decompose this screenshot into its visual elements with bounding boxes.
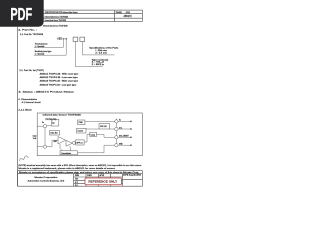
demodulator block B8 bbox=[60, 151, 78, 155]
band pass block B6 bbox=[76, 140, 84, 145]
svg-text:AB0103 TSOP4-40 : Wide case ty: AB0103 TSOP4-40 : Wide case type bbox=[40, 80, 79, 83]
right label group 2 bbox=[92, 58, 109, 66]
wire B3 to pin bus bbox=[85, 120, 115, 122]
svg-text:AB0102 TSOP4-38 : Low case typ: AB0102 TSOP4-38 : Low case type bbox=[40, 76, 79, 79]
svg-text:T.M.: T.M. bbox=[75, 179, 79, 181]
leader from square2 to right label 1 bbox=[82, 42, 114, 55]
svg-text:2 : BK2 p: 2 : BK2 p bbox=[92, 64, 104, 66]
svg-text:(NOTE) terminal assembly has s: (NOTE) terminal assembly has same with a… bbox=[18, 164, 141, 167]
svg-text:2-1. Part No. list (TSOP): 2-1. Part No. list (TSOP) bbox=[19, 69, 44, 72]
svg-text:Murata Corporation: Murata Corporation bbox=[34, 176, 58, 179]
svg-text:1 : Specials: 1 : Specials bbox=[35, 53, 45, 55]
svg-text:Infrared data Sensor TSOP4838: Infrared data Sensor TSOP4838 bbox=[45, 15, 69, 18]
left label group 2 bbox=[35, 50, 52, 55]
wire B5 to pin bus bbox=[110, 128, 115, 130]
svg-text:AB0104 TSOP4-40 : Low gain typ: AB0104 TSOP4-40 : Low gain type bbox=[40, 83, 78, 86]
svg-text:OSC 1/4: OSC 1/4 bbox=[100, 126, 107, 128]
svg-text:3. Status : AB0174 Produ: 3. Status : AB0174 Product Status bbox=[18, 91, 75, 94]
pin circle C bbox=[115, 136, 118, 139]
wire node 2 to input block bbox=[47, 125, 52, 127]
schematic frame bbox=[37, 113, 142, 156]
pin D wire and terminal bbox=[118, 144, 131, 146]
wire T1 to demodulator bbox=[60, 144, 63, 151]
svg-text:Automotive Controls Business U: Automotive Controls Business Unit bbox=[28, 179, 65, 182]
svg-text:Induc Ext: Induc Ext bbox=[50, 132, 58, 135]
footer table frame bbox=[18, 171, 143, 187]
svg-text:Infrared data Sensor TSOP4838: Infrared data Sensor TSOP4838 bbox=[43, 114, 82, 117]
svg-text:S.K.: S.K. bbox=[75, 185, 79, 187]
svg-text:Inp: Inp bbox=[52, 122, 54, 124]
control block B4 bbox=[77, 128, 86, 133]
PDF badge bbox=[0, 0, 44, 27]
svg-text:PAGE: PAGE bbox=[116, 11, 122, 14]
wire node1 to amp bbox=[37, 146, 43, 148]
comparator block B7 bbox=[90, 132, 97, 136]
svg-text:Vs: Vs bbox=[119, 120, 121, 122]
PGM block B3 bbox=[78, 120, 85, 125]
leader from digit 2 to left label 2 bbox=[34, 40, 66, 55]
wire node2 bus down bbox=[44, 128, 46, 145]
svg-text:2-1. Part No. TSOP4838: 2-1. Part No. TSOP4838 bbox=[20, 33, 44, 36]
svg-text:AB0101 TSOP4-38 : Wide case ty: AB0101 TSOP4-38 : Wide case type bbox=[40, 72, 80, 75]
svg-text:Murata on acceptance of specif: Murata on acceptance of specification pl… bbox=[19, 171, 140, 174]
amplifier triangle T2 bbox=[66, 140, 72, 146]
svg-text:Specifications of the Parts: Specifications of the Parts bbox=[89, 46, 118, 49]
wire B4 to B5 bbox=[86, 128, 99, 130]
svg-text:REFERENCE ONLY: REFERENCE ONLY bbox=[88, 180, 117, 184]
pin circle A bbox=[115, 120, 118, 123]
svg-text:SPECIFICATIONS FOR Infrared da: SPECIFICATIONS FOR Infrared data Sensor bbox=[45, 11, 78, 14]
svg-text:2. Part No. :: 2. Part No. : bbox=[18, 29, 37, 32]
node circle pin 2 bbox=[43, 125, 46, 128]
svg-text:2 : 5.5 mm: 2 : 5.5 mm bbox=[95, 52, 107, 54]
svg-text:DATE Aug.30,2002: DATE Aug.30,2002 bbox=[123, 174, 141, 177]
page background bbox=[0, 0, 149, 198]
pin B wire and terminal bbox=[118, 128, 131, 130]
svg-text:AB0172: AB0172 bbox=[124, 15, 133, 18]
header table frame bbox=[40, 10, 142, 21]
svg-text:Vs: Vs bbox=[42, 122, 44, 124]
svg-text:4-1 Internal circuit: 4-1 Internal circuit bbox=[22, 101, 42, 104]
oscillator block B5 bbox=[99, 124, 110, 130]
svg-text:Infrared data Sensor TSOP4838: Infrared data Sensor TSOP4838 bbox=[43, 24, 68, 27]
svg-text:4-1-1 Block: 4-1-1 Block bbox=[18, 109, 32, 111]
svg-text:Murata is a registered tradema: Murata is a registered trademark, please… bbox=[18, 167, 115, 170]
wire B6 up to B7 bbox=[84, 134, 90, 142]
wire node1 right to amplifier bbox=[47, 146, 52, 148]
svg-text:BPF cct: BPF cct bbox=[77, 141, 83, 144]
svg-text:Comp: Comp bbox=[91, 135, 96, 137]
wire T2 to demodulator bbox=[69, 146, 72, 151]
svg-text:APVD: APVD bbox=[100, 174, 105, 177]
pin A wire and terminal bbox=[118, 120, 131, 122]
svg-text:ABS: ABS bbox=[57, 37, 62, 40]
svg-text:PGM: PGM bbox=[79, 122, 83, 124]
svg-text:PDF: PDF bbox=[10, 4, 32, 24]
pin bus vertical bbox=[115, 119, 117, 147]
leader from square1 to right label 2 bbox=[75, 42, 102, 67]
reference only stamp bbox=[85, 178, 121, 185]
svg-text:4. Characteristics: 4. Characteristics bbox=[18, 98, 38, 101]
wire demodulator to pin D bbox=[78, 145, 115, 153]
wire from frame to node 2 bbox=[37, 125, 43, 127]
svg-text:Infrared data Sensor TSOP4838: Infrared data Sensor TSOP4838 bbox=[45, 19, 67, 22]
pin circle D bbox=[115, 144, 118, 147]
node circle pin 1 bbox=[43, 145, 46, 148]
left label group 1 bbox=[35, 43, 48, 48]
svg-text:Demodulator: Demodulator bbox=[61, 152, 71, 155]
leader from digit 1 to left label 1 bbox=[34, 40, 64, 48]
option square 2 bbox=[80, 37, 85, 41]
wire B7 to pin C bbox=[97, 134, 115, 137]
svg-text:Vs B: Vs B bbox=[33, 138, 36, 140]
pin circle B bbox=[115, 127, 118, 130]
amplifier triangle T1 bbox=[58, 137, 66, 145]
svg-text:1 : Specials: 1 : Specials bbox=[35, 46, 45, 48]
svg-text:Control: Control bbox=[78, 130, 84, 133]
page left border bbox=[17, 27, 19, 186]
signature squiggle bbox=[19, 156, 28, 161]
input block B1 bbox=[45, 119, 58, 126]
svg-text:O.S.: O.S. bbox=[119, 127, 123, 129]
AGC block B2 bbox=[50, 131, 60, 136]
svg-text:CHKD: CHKD bbox=[87, 175, 93, 177]
option square 1 bbox=[73, 37, 78, 41]
right label group 1 bbox=[89, 46, 118, 54]
mixer circle bbox=[72, 141, 75, 144]
pin C wire and terminal bbox=[118, 136, 131, 138]
